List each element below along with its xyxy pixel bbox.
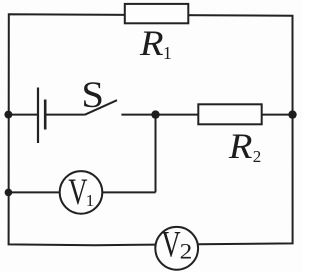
svg-text:1: 1: [163, 43, 172, 63]
svg-text:V: V: [161, 224, 180, 264]
svg-text:2: 2: [253, 147, 261, 166]
svg-text:S: S: [81, 75, 104, 116]
svg-text:R: R: [139, 24, 164, 64]
svg-text:V: V: [68, 172, 87, 212]
svg-text:2: 2: [180, 240, 193, 264]
svg-text:R: R: [228, 127, 253, 167]
svg-text:1: 1: [86, 191, 95, 210]
